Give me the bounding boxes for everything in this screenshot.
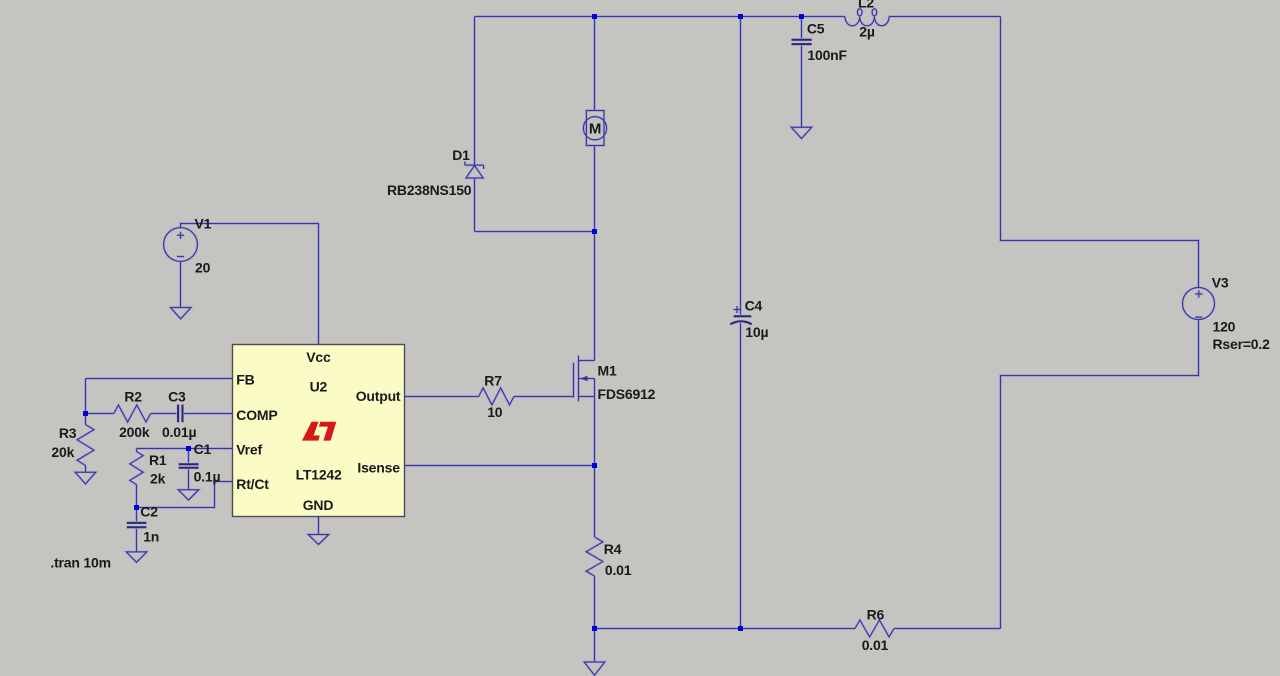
svg-text:0.01µ: 0.01µ bbox=[162, 424, 196, 440]
svg-text:RB238NS150: RB238NS150 bbox=[387, 182, 472, 198]
svg-text:R7: R7 bbox=[484, 372, 502, 388]
svg-text:0.01: 0.01 bbox=[862, 637, 889, 653]
svg-text:R4: R4 bbox=[604, 541, 622, 557]
svg-text:200k: 200k bbox=[119, 424, 150, 440]
svg-text:Rt/Ct: Rt/Ct bbox=[236, 476, 269, 492]
svg-text:U2: U2 bbox=[310, 379, 328, 395]
svg-text:R1: R1 bbox=[149, 452, 167, 468]
svg-text:GND: GND bbox=[303, 497, 334, 513]
svg-text:COMP: COMP bbox=[236, 407, 277, 423]
svg-text:V1: V1 bbox=[195, 216, 212, 232]
svg-text:L2: L2 bbox=[858, 0, 874, 11]
svg-text:C2: C2 bbox=[140, 504, 158, 520]
svg-text:R3: R3 bbox=[59, 425, 77, 441]
svg-text:FDS6912: FDS6912 bbox=[598, 386, 656, 402]
svg-text:Rser=0.2: Rser=0.2 bbox=[1213, 336, 1271, 352]
svg-text:20: 20 bbox=[195, 259, 211, 275]
svg-text:C5: C5 bbox=[807, 21, 825, 37]
svg-text:LT1242: LT1242 bbox=[296, 466, 342, 482]
svg-text:100nF: 100nF bbox=[807, 47, 847, 63]
svg-text:C3: C3 bbox=[168, 389, 186, 405]
svg-text:1n: 1n bbox=[143, 529, 159, 545]
svg-text:2k: 2k bbox=[150, 471, 166, 487]
svg-text:C4: C4 bbox=[745, 298, 763, 314]
svg-text:M: M bbox=[589, 120, 601, 137]
svg-text:0.01: 0.01 bbox=[605, 562, 632, 578]
svg-text:Isense: Isense bbox=[357, 460, 400, 476]
svg-text:R2: R2 bbox=[124, 389, 142, 405]
svg-text:R6: R6 bbox=[867, 606, 885, 622]
svg-text:20k: 20k bbox=[51, 444, 74, 460]
svg-text:Vref: Vref bbox=[236, 441, 262, 457]
svg-text:120: 120 bbox=[1213, 319, 1236, 335]
svg-text:10: 10 bbox=[487, 404, 503, 420]
svg-text:10µ: 10µ bbox=[745, 324, 768, 340]
svg-text:C1: C1 bbox=[194, 441, 212, 457]
svg-text:M1: M1 bbox=[598, 363, 617, 379]
svg-text:Vcc: Vcc bbox=[306, 349, 331, 365]
svg-text:2µ: 2µ bbox=[859, 24, 875, 40]
svg-text:0.1µ: 0.1µ bbox=[194, 469, 221, 485]
svg-text:FB: FB bbox=[236, 372, 254, 388]
svg-text:V3: V3 bbox=[1212, 275, 1229, 291]
svg-text:Output: Output bbox=[356, 388, 401, 404]
svg-text:.tran 10m: .tran 10m bbox=[50, 554, 110, 570]
svg-text:D1: D1 bbox=[452, 147, 470, 163]
